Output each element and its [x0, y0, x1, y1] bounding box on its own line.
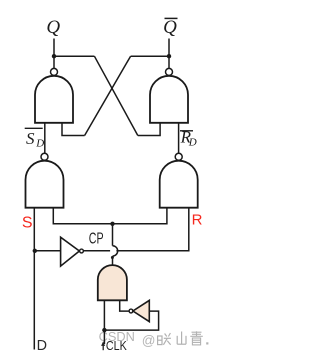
wire CLK junction to U3 input [104, 311, 158, 330]
wire Q stem [53, 39, 55, 69]
svg-text:S: S [22, 215, 33, 232]
node CLK junction dot [102, 328, 106, 332]
wire Q-bar stem [168, 39, 170, 69]
watermark hanzi shan [177, 332, 186, 345]
node dot at hop bottom [111, 256, 114, 259]
svg-text:CLK: CLK [106, 338, 127, 353]
svg-text:Q: Q [46, 17, 60, 38]
wire U2 right input to U3 output [120, 300, 129, 311]
watermark hanzi qing [190, 331, 203, 345]
svg-text:@: @ [142, 333, 156, 348]
inverter U3 [129, 300, 149, 321]
wire D/S vertical [33, 208, 35, 350]
wire RD-bar net [178, 123, 180, 153]
wire cross diagonal Q-bar to G1 input [85, 56, 131, 135]
node Q-bar label [163, 17, 177, 38]
inverter U1 [61, 237, 84, 266]
and-gate U2 pulse gate [98, 265, 127, 300]
watermark CSDN [99, 329, 156, 348]
svg-text:R: R [192, 212, 203, 229]
nand-gate G2 upper-right [150, 68, 188, 122]
watermark period [206, 342, 208, 344]
wire G3 right input to CP rail [53, 208, 167, 224]
wire R net right segment to G4 right input [116, 208, 188, 251]
wire CP vertical lower part [112, 256, 114, 266]
wire cross diagonal Q to G2 input [94, 56, 137, 135]
svg-text:D: D [37, 337, 48, 354]
wire D to inverter U1 input [35, 250, 61, 252]
node CP junction dot [110, 222, 114, 226]
svg-text:S: S [26, 129, 35, 148]
node CLK label with rising edge arrow [101, 338, 127, 353]
svg-text:Q: Q [163, 17, 177, 38]
nand-gate G3 lower-left [26, 153, 64, 207]
svg-text:D: D [35, 138, 44, 150]
node B junction dot on Q-bar [167, 54, 171, 58]
node junction dot on D line [33, 249, 37, 253]
node SD-bar label [25, 128, 45, 149]
wire SD-bar net [44, 123, 46, 153]
nand-gate G1 upper-left [35, 68, 73, 122]
wire Q-bar horizontal to cross [131, 55, 169, 57]
wire U1 output / R net left segment [83, 250, 110, 252]
wire Q horizontal to cross [54, 55, 94, 57]
node A junction dot on Q [52, 54, 56, 58]
wire to G1 right input [62, 123, 85, 136]
node RD-bar label [180, 128, 197, 149]
wire to G2 left input [138, 123, 160, 136]
svg-text:CP: CP [89, 231, 104, 248]
watermark hanzi xiao [158, 333, 171, 345]
nand-gate G4 lower-right [160, 153, 198, 207]
wire CP vertical upper part [112, 224, 114, 246]
svg-text:D: D [188, 137, 197, 149]
wire hop over R net [113, 246, 118, 256]
wire U2 left input / CLK vertical [103, 300, 105, 344]
